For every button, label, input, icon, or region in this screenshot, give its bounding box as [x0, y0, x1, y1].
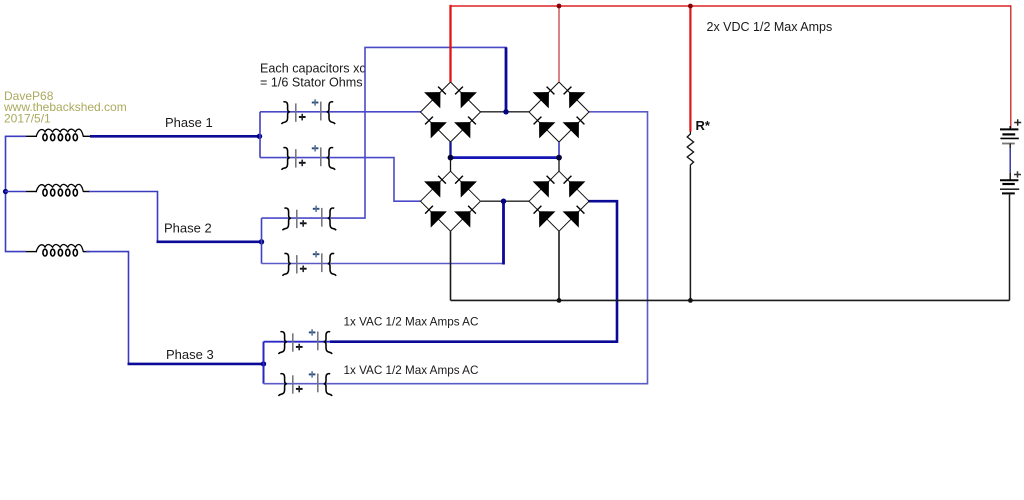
capacitor pair C6	[278, 371, 332, 396]
svg-text:1x VAC 1/2 Max Amps AC: 1x VAC 1/2 Max Amps AC	[344, 364, 479, 377]
wire: R* lower black vertical	[689, 168, 691, 301]
wire: battery interconnect	[1009, 144, 1011, 149]
wire: phase 1 main	[90, 135, 260, 138]
wire: phase 3 branch vertical	[263, 342, 265, 384]
capacitor pair C2	[281, 145, 335, 170]
node: phase 2 split junction	[259, 239, 264, 244]
wire: BR3 bottom drop	[450, 231, 452, 300]
wire: star point vertical	[5, 136, 7, 251]
wire: row5 thick run to bridge4 right	[330, 201, 617, 342]
wire: mid bus to BR3 top vertical	[450, 157, 452, 171]
wire: BR2 bottom to mid bus vertical	[558, 142, 560, 158]
bridge rectifier BR1	[421, 82, 481, 142]
wire: phase 1 branch vertical	[259, 112, 261, 158]
resistor R* zigzag	[687, 132, 693, 168]
wire: battery negative riser	[1009, 195, 1011, 301]
node: star point junction	[3, 189, 8, 194]
node: red bus junction at R*	[688, 4, 693, 9]
bridge rectifier BR2	[529, 82, 589, 142]
wire: phase 2 thick run	[157, 241, 262, 244]
wire: AC line caps row1 to bridge1 (drawn above), bridge1-bridge2 link	[480, 111, 529, 113]
wire: row4 thick up leg	[502, 201, 505, 264]
node: bridge3/bridge4 AC junction	[501, 199, 506, 204]
wire: row3 thick down leg	[505, 47, 508, 111]
node: bottom bus junction at BR4	[557, 298, 562, 303]
wire: red drop to BR2	[558, 6, 560, 82]
wire: phase 2 left lead	[5, 191, 26, 193]
wire: BR4 bottom drop	[558, 231, 560, 300]
wire: phase 2 branch vertical	[261, 218, 263, 263]
wire: red positive bus	[451, 6, 452, 82]
capacitor pair C1	[281, 99, 335, 124]
wire: bridge3-bridge4 link	[481, 200, 529, 202]
node: mid bus left junction	[448, 155, 454, 161]
node: bottom bus junction at R*	[688, 298, 693, 303]
inductor L1	[26, 129, 90, 140]
battery BT1	[1000, 129, 1019, 143]
wire: battery 1 top lead (black stub)	[1009, 126, 1011, 129]
capacitor pair C4	[282, 251, 336, 276]
wire: phase 3 elbow down	[86, 252, 129, 364]
svg-text:2x VDC 1/2 Max Amps: 2x VDC 1/2 Max Amps	[707, 20, 833, 34]
svg-text:Phase 1: Phase 1	[165, 115, 213, 130]
wire: row6 to bridge2 right	[264, 112, 648, 384]
wire: row4 to bridge3/4 junction	[262, 263, 504, 265]
wire: row2 to bridge3	[260, 158, 421, 202]
svg-text:2017/5/1: 2017/5/1	[4, 112, 51, 126]
wire: row3 lead and up-over to bridges junction	[262, 47, 507, 218]
svg-text:= 1/6 Stator Ohms: = 1/6 Stator Ohms	[260, 75, 363, 89]
svg-text:1x VAC 1/2 Max Amps AC: 1x VAC 1/2 Max Amps AC	[344, 316, 479, 329]
bridge rectifier BR4	[529, 171, 589, 231]
wire: mid DC bus	[450, 156, 560, 159]
wire: phase 3 thick run	[128, 363, 264, 366]
svg-text:R*: R*	[696, 118, 711, 133]
capacitor pair C3	[282, 206, 336, 231]
wire: phase 1 left lead	[5, 135, 26, 137]
svg-text:Phase 2: Phase 2	[164, 221, 212, 236]
node: red bus junction at BR2	[557, 4, 562, 9]
capacitor pair C5	[278, 329, 332, 354]
wire: row1 through	[260, 111, 421, 113]
inductor L2	[26, 184, 90, 195]
wire: mid bus to BR4 top vertical	[558, 157, 560, 171]
svg-text:Each capacitors xc: Each capacitors xc	[260, 62, 366, 76]
battery BT2	[1000, 180, 1019, 193]
label: battery 1 plus	[1014, 119, 1021, 125]
svg-text:Phase 3: Phase 3	[166, 347, 214, 362]
wire: row5 lead	[264, 341, 336, 343]
bridge rectifier BR3	[421, 171, 481, 231]
node: phase 3 split junction	[261, 361, 266, 366]
node: bridge1/bridge2 AC junction	[503, 109, 508, 114]
wire: phase 3 left lead	[5, 251, 26, 253]
wire: BR1 bottom to mid bus vertical	[449, 142, 451, 158]
wire: red drop to R*	[689, 6, 691, 132]
inductor L3	[26, 245, 90, 256]
wire: bottom negative bus	[451, 299, 1010, 301]
node: mid bus right junction	[556, 155, 562, 161]
label: battery 2 plus	[1014, 171, 1021, 177]
node: phase 1 split junction	[257, 134, 262, 139]
wire: phase 2 main elbow	[89, 192, 158, 242]
